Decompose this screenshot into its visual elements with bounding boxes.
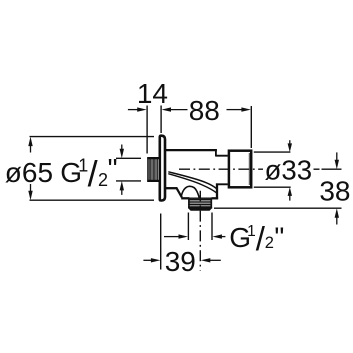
svg-text:2: 2 [265, 234, 274, 252]
body right edge (below neck) [216, 183, 218, 199]
extension line outlet end [250, 106, 252, 148]
38 dim arrows [335, 152, 339, 224]
extension line flange face [160, 106, 162, 134]
o33 dim arrows [288, 140, 292, 200]
o65 extension line bottom [30, 199, 155, 201]
svg-text:ø65: ø65 [5, 157, 53, 188]
internal contour curve upper [168, 172, 217, 189]
valve body [166, 149, 219, 199]
svg-text:14: 14 [137, 78, 168, 109]
neck between body and outlet cylinder [216, 156, 228, 185]
svg-text:": " [274, 221, 284, 252]
svg-text:38: 38 [319, 175, 350, 206]
o33 extension line bottom [254, 186, 291, 188]
svg-text:": " [108, 153, 118, 184]
bottom thread extension line right [211, 213, 213, 241]
39 extension line left (wall face) [160, 214, 162, 270]
body bottom-right edge [212, 197, 219, 199]
horizontal centerline of inlet/outlet axis [179, 168, 322, 170]
body top edge [166, 149, 217, 151]
left thread extension line top [116, 157, 141, 159]
outlet cylinder (right, o33) [229, 151, 251, 188]
svg-text:ø33: ø33 [265, 155, 313, 186]
body top-right step down to neck [215, 149, 217, 156]
dim line 14 left arrow [128, 107, 147, 111]
38 axis extension segment [322, 168, 342, 170]
o33 extension line top [254, 151, 291, 153]
internal contour curve lower [168, 174, 217, 194]
svg-text:2: 2 [98, 170, 108, 190]
svg-text:88: 88 [189, 95, 220, 126]
cylinder end chamfer line [248, 153, 250, 185]
svg-text:1: 1 [247, 223, 256, 240]
svg-text:39: 39 [165, 246, 196, 277]
body bottom-left edge [166, 187, 177, 189]
bottom G1/2 text [229, 220, 284, 257]
o65 dimension line with arrows [28, 137, 32, 201]
39 dim arrows [143, 258, 220, 262]
bottom G1/2 dim arrows [164, 234, 225, 238]
38 bottom extension line (from outlet tip) [214, 207, 342, 209]
left thread dim arrows [120, 145, 124, 195]
bottom thread extension line left [187, 213, 189, 241]
outlet boss hump [181, 186, 199, 197]
body bottom edge left of outlet [181, 197, 189, 199]
vertical centerline of bottom outlet [199, 191, 201, 271]
extension line wall face [146, 106, 148, 154]
body bottom step diagonal [176, 187, 182, 197]
bottom outlet male thread (G1/2) [188, 198, 212, 211]
o65 extension line top [30, 136, 155, 138]
dimension o65 G1/2 text [5, 153, 118, 194]
wall male thread (left inlet, G1/2) [147, 157, 159, 182]
left thread extension line bottom [116, 180, 141, 182]
dim line 88 with arrows [162, 107, 251, 111]
wall flange (escutcheon, side view) [160, 136, 165, 201]
svg-text:/: / [88, 153, 98, 194]
